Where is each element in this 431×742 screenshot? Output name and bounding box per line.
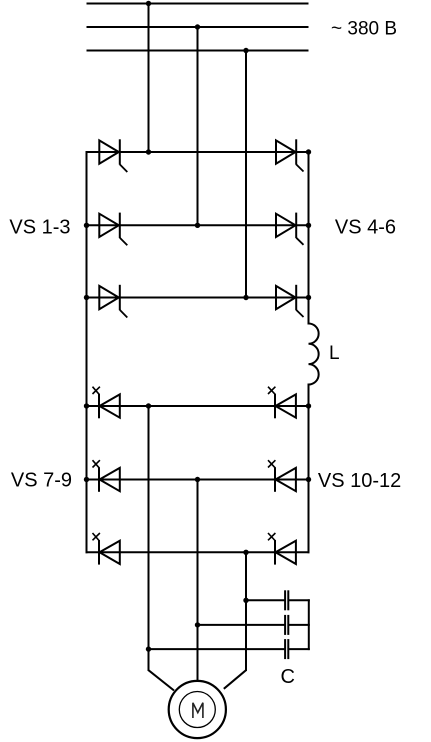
wire - row 2 horizontal bbox=[86, 224, 310, 226]
node left bus row2 bbox=[84, 223, 89, 228]
wire - capacitor C1 right lead bbox=[288, 599, 310, 601]
node C3 tap bbox=[146, 646, 151, 651]
thyristor VS2 bbox=[99, 213, 127, 246]
wire - row 4 horizontal bbox=[86, 405, 310, 407]
wire - row 1 horizontal bbox=[86, 151, 310, 153]
node phase C tap bbox=[243, 48, 248, 53]
svg-text:L: L bbox=[329, 343, 340, 364]
thyristor VS12 bbox=[268, 533, 296, 565]
wire - motor phase W vertical bbox=[245, 552, 247, 671]
node motor W tap bbox=[243, 550, 248, 555]
wire - capacitor bank right rail bbox=[308, 599, 310, 650]
motor M outer circle bbox=[169, 681, 226, 738]
thyristor VS10 bbox=[268, 387, 296, 419]
wire - three-phase supply line 3 bbox=[87, 50, 309, 52]
wire - right bus upper bbox=[308, 151, 310, 325]
svg-text:~ 380 В: ~ 380 В bbox=[331, 19, 397, 40]
wire - capacitor C2 left lead bbox=[198, 624, 286, 626]
capacitor C2 bbox=[285, 615, 288, 635]
wire - three-phase supply line 2 bbox=[87, 26, 309, 28]
capacitor C3 bbox=[285, 639, 288, 659]
wire - right bus lower bbox=[308, 384, 310, 554]
svg-text:VS 4-6: VS 4-6 bbox=[335, 216, 396, 238]
wire - three-phase supply line 1 bbox=[87, 3, 309, 5]
thyristor VS1 bbox=[99, 139, 127, 172]
wire - row 6 horizontal bbox=[86, 551, 310, 553]
svg-text:VS 7-9: VS 7-9 bbox=[11, 470, 72, 492]
wire - phase A drop bbox=[148, 4, 150, 153]
thyristor VS4 bbox=[276, 139, 304, 171]
node phase A tap bbox=[146, 1, 151, 6]
wire - capacitor C3 left lead bbox=[149, 648, 286, 650]
node motor U tap bbox=[146, 403, 151, 408]
label M bbox=[193, 703, 203, 718]
wire - row 3 horizontal bbox=[86, 297, 310, 299]
thyristor VS6 bbox=[276, 285, 304, 317]
inductor L bbox=[309, 324, 319, 385]
wire - motor phase U vertical bbox=[148, 406, 150, 671]
wire - motor phase U diagonal bbox=[149, 670, 175, 690]
wire - row 5 horizontal bbox=[86, 479, 310, 481]
thyristor VS9 bbox=[93, 533, 120, 565]
node phase C row3 bbox=[243, 295, 248, 300]
wire - motor phase W diagonal bbox=[224, 670, 246, 689]
node left bus row4 bbox=[84, 403, 89, 408]
node phase A row1 bbox=[146, 149, 151, 154]
wire - capacitor C1 left lead bbox=[246, 599, 285, 601]
node right bus row3 bbox=[306, 295, 311, 300]
node left bus row3 bbox=[84, 295, 89, 300]
thyristor VS8 bbox=[93, 460, 120, 492]
wire - capacitor C3 right lead bbox=[288, 648, 310, 650]
svg-text:VS 1-3: VS 1-3 bbox=[9, 216, 70, 238]
node motor V tap bbox=[195, 477, 200, 482]
wire - motor phase V vertical bbox=[197, 480, 199, 683]
node C1 tap bbox=[243, 598, 248, 603]
node phase B row2 bbox=[195, 223, 200, 228]
node phase B tap bbox=[195, 24, 200, 29]
svg-text:VS 10-12: VS 10-12 bbox=[318, 470, 401, 492]
thyristor VS5 bbox=[276, 213, 304, 245]
wire - phase B drop bbox=[197, 27, 199, 225]
thyristor VS11 bbox=[268, 460, 296, 492]
node right bus row4 bbox=[306, 403, 311, 408]
thyristor VS3 bbox=[99, 285, 127, 318]
wire - left bus bbox=[86, 151, 88, 553]
wire - capacitor C2 right lead bbox=[288, 624, 310, 626]
motor M inner circle bbox=[179, 692, 215, 728]
thyristor VS7 bbox=[93, 387, 120, 419]
svg-text:C: C bbox=[281, 666, 295, 688]
node right bus row2 bbox=[306, 223, 311, 228]
capacitor C1 bbox=[285, 590, 288, 610]
node C2 tap bbox=[195, 622, 200, 627]
node right bus row1 bbox=[306, 149, 311, 154]
node left bus row5 bbox=[84, 477, 89, 482]
node right bus row5 bbox=[306, 477, 311, 482]
wire - phase C drop bbox=[245, 51, 247, 298]
